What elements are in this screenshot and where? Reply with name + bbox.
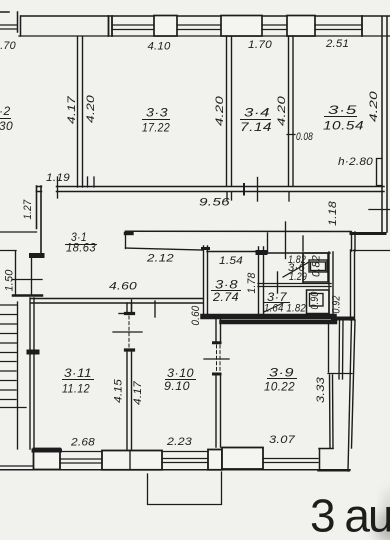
band left cap nub xyxy=(126,232,133,235)
window under 3-9 xyxy=(263,459,318,463)
svg-text:3·5: 3·5 xyxy=(328,103,357,117)
wall 3-4/3-5 xyxy=(289,36,294,186)
band bottom line xyxy=(126,248,204,250)
tick 1.19 xyxy=(57,177,59,198)
svg-text:0.60: 0.60 xyxy=(190,306,202,326)
band left cap xyxy=(125,231,127,248)
svg-text:1.27: 1.27 xyxy=(22,199,34,220)
right horizontal y250 xyxy=(353,250,390,252)
svg-text:4.15: 4.15 xyxy=(113,378,125,403)
svg-text:4.20: 4.20 xyxy=(214,96,226,126)
svg-text:3 au: 3 au xyxy=(310,490,390,540)
staircase landing tick xyxy=(0,407,26,409)
corner smudge xyxy=(376,510,390,540)
right vertical x353 upper xyxy=(352,232,356,251)
svg-text:17.22: 17.22 xyxy=(142,121,170,135)
svg-text:4.17: 4.17 xyxy=(132,380,144,405)
niche left wall xyxy=(15,251,17,294)
svg-text:4.20: 4.20 xyxy=(276,96,288,126)
room 3-9 top wall xyxy=(222,320,336,325)
closet column left wall xyxy=(302,253,304,283)
niche right wall xyxy=(31,256,33,294)
svg-text:3·4: 3·4 xyxy=(244,106,270,120)
svg-text:4.20: 4.20 xyxy=(85,95,97,123)
wall 3-11/3-10 xyxy=(127,303,132,450)
svg-text:10.54: 10.54 xyxy=(323,119,364,133)
wall 3-10/3-9 xyxy=(216,319,221,447)
band top wall y232 xyxy=(126,230,352,232)
shaft bottom tick xyxy=(328,373,352,375)
exterior top wall outer line xyxy=(0,12,390,16)
bottom wall inner line xyxy=(34,451,222,453)
svg-text:0.92: 0.92 xyxy=(331,296,343,314)
wall 3-10/3-9 door caps xyxy=(214,343,221,374)
right step wall y233 xyxy=(351,232,385,235)
svg-text:3·9: 3·9 xyxy=(269,366,294,380)
svg-text:12.30: 12.30 xyxy=(0,119,13,133)
left niche line y251 xyxy=(0,250,16,252)
wall 3-11/3-10 door caps xyxy=(126,314,134,351)
bottom pier C xyxy=(208,450,222,470)
right building edge lower xyxy=(348,320,355,471)
wall 3-6/3-7 divider xyxy=(258,284,331,287)
svg-text:4.60: 4.60 xyxy=(109,281,137,293)
svg-text:0.90: 0.90 xyxy=(309,292,321,310)
window W1 top-left glazing xyxy=(0,25,17,29)
tick x155 xyxy=(154,301,156,317)
svg-text:18.63: 18.63 xyxy=(66,241,96,255)
svg-text:7.14: 7.14 xyxy=(240,120,272,134)
svg-text:3·3: 3·3 xyxy=(146,106,168,120)
pier P3 xyxy=(287,16,315,37)
svg-text:9.56: 9.56 xyxy=(199,197,230,209)
bottom-left outer double xyxy=(0,465,33,467)
svg-text:3.07: 3.07 xyxy=(269,434,296,446)
wall 3-10/3-9 door dashed xyxy=(217,345,221,372)
right exterior wall upper xyxy=(382,17,387,232)
bottom pier A (black band) xyxy=(34,449,61,470)
pier P2 xyxy=(221,16,262,37)
3-8 left wall top nub xyxy=(203,247,209,250)
right wall door tick xyxy=(369,209,390,211)
svg-text:2.74: 2.74 xyxy=(212,290,239,304)
svg-text:3.33: 3.33 xyxy=(315,377,327,403)
strike through 1.64 xyxy=(264,303,283,312)
exterior top wall inner line xyxy=(19,35,390,37)
room 3-8 right wall xyxy=(259,247,264,318)
wall 3-2/3-3 xyxy=(78,37,83,187)
svg-text:0.08: 0.08 xyxy=(296,131,313,143)
door jamb ticks x87 x94 xyxy=(88,177,95,187)
svg-text:1.70: 1.70 xyxy=(248,39,272,51)
svg-text:1.78: 1.78 xyxy=(246,273,258,294)
corridor top wall xyxy=(37,187,385,192)
tick x303 xyxy=(302,236,304,251)
door cap 3-11 xyxy=(29,350,37,355)
balcony outline xyxy=(148,472,222,505)
rooms 3-8/3-7 bottom wall xyxy=(203,314,334,320)
svg-text:4.17: 4.17 xyxy=(66,95,78,124)
tick below wall C xyxy=(288,192,290,201)
dim tick x257 xyxy=(257,178,259,202)
svg-text:10.22: 10.22 xyxy=(264,380,295,394)
3-9 right wall bottom step xyxy=(319,449,333,471)
room 3-8 right wall cap xyxy=(258,250,265,255)
wall 3-3/3-4 xyxy=(227,37,232,186)
svg-text:3·11: 3·11 xyxy=(64,366,92,380)
svg-text:2.68: 2.68 xyxy=(70,437,95,449)
svg-text:2.70: 2.70 xyxy=(0,40,16,52)
svg-text:1.64 1.82: 1.64 1.82 xyxy=(264,303,306,315)
niche tick 1.50 xyxy=(12,279,42,281)
closet column right wall xyxy=(329,252,333,316)
svg-text:4.10: 4.10 xyxy=(148,41,171,53)
left wall upper (1.27) xyxy=(37,186,42,254)
tick left of door xyxy=(119,313,125,315)
bottom pier D xyxy=(222,448,263,470)
staircase treads xyxy=(0,305,17,400)
tick x285 xyxy=(285,222,287,259)
svg-text:3·10: 3·10 xyxy=(167,366,194,380)
left corner blob xyxy=(32,253,43,258)
room 3-8 top wall xyxy=(207,251,259,253)
left landing line y232 xyxy=(0,231,37,233)
bottom pier B xyxy=(102,451,162,470)
window under 3-11 xyxy=(60,459,102,463)
tick x131 xyxy=(131,300,133,313)
door swing line 3-9 xyxy=(204,358,229,360)
svg-text:h·2.80: h·2.80 xyxy=(338,156,373,168)
window W2 glazing xyxy=(112,25,154,30)
closet upper inner box xyxy=(309,260,327,272)
door tick x244 xyxy=(243,184,245,195)
closet lower inner box xyxy=(310,294,324,307)
staircase right wall xyxy=(17,302,19,449)
pier divider x18 xyxy=(18,12,21,36)
svg-text:3·2: 3·2 xyxy=(0,104,11,118)
ticks below wall B xyxy=(227,192,232,200)
svg-text:2.51: 2.51 xyxy=(325,38,349,50)
svg-text:1.18: 1.18 xyxy=(327,201,339,226)
tick in 3-6 xyxy=(277,272,279,293)
window W5 glazing xyxy=(315,25,362,30)
svg-text:1.50: 1.50 xyxy=(4,270,16,292)
closet lower box xyxy=(307,290,330,314)
room 3-6 top wall xyxy=(265,252,330,254)
window W3 glazing xyxy=(177,25,221,30)
room 3-11 left wall xyxy=(30,298,34,449)
room 3-9 right wall xyxy=(330,375,334,448)
shaft double lines xyxy=(339,321,343,379)
right wall niche xyxy=(377,159,383,186)
svg-text:9.10: 9.10 xyxy=(164,379,190,393)
pier end x362 xyxy=(361,16,363,36)
niche bottom wall xyxy=(13,294,42,297)
svg-text:0.82: 0.82 xyxy=(311,255,323,277)
svg-text:2.23: 2.23 xyxy=(166,436,192,448)
bottom wall outer line xyxy=(0,469,350,471)
svg-text:1.19: 1.19 xyxy=(46,172,70,184)
svg-text:1.29: 1.29 xyxy=(289,271,307,283)
corridor bottom wall xyxy=(31,299,203,304)
svg-text:4.20: 4.20 xyxy=(368,91,380,122)
svg-text:2.12: 2.12 xyxy=(146,253,174,265)
door swing line 3-10 xyxy=(113,331,142,333)
window W4 glazing xyxy=(262,25,287,30)
closet upper box xyxy=(303,253,328,282)
bottom right corner line xyxy=(318,470,350,472)
pier P1 (square) xyxy=(154,16,177,37)
room 3-8 left wall xyxy=(204,246,208,318)
wall 3-11/3-10 door dashed xyxy=(128,316,130,347)
door jamb 3-6 xyxy=(267,233,269,253)
pier divider x110 xyxy=(109,16,113,36)
window under 3-10 xyxy=(162,459,210,463)
strike through 3-6 label xyxy=(283,262,309,277)
shaft below closets xyxy=(328,321,330,372)
right wall x352 middle xyxy=(351,250,355,320)
0.08 jog tick on wall 3-4/3-5 xyxy=(287,134,295,136)
svg-text:1.54: 1.54 xyxy=(219,255,243,267)
svg-text:11.12: 11.12 xyxy=(62,382,90,396)
